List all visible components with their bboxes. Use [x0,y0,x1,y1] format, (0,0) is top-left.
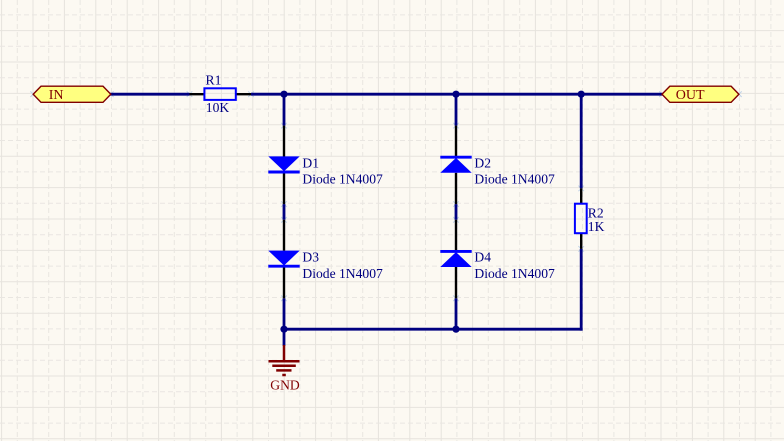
wire: below D3 [283,298,286,330]
svg-text:Diode 1N4007: Diode 1N4007 [302,266,383,281]
junction dot R2 branch top [578,91,585,98]
svg-text:R1: R1 [206,72,222,87]
svg-text:D1: D1 [302,155,319,170]
pin hotspot crosses R2 [578,186,584,252]
svg-text:GND: GND [270,378,300,393]
pin hotspot crosses branch2 diodes [453,123,459,301]
port OUT hotspot crosses [659,91,742,97]
svg-text:Diode 1N4007: Diode 1N4007 [474,266,555,281]
port IN [33,86,111,103]
wire: branch2 top vertical [455,94,458,125]
wire: R1 right pin to OUT port [251,93,663,96]
port OUT [662,86,739,103]
wire: bottom bus [283,328,583,331]
junction dot branch2 top [452,91,459,98]
junction dot bottom branch1 [280,326,287,333]
svg-text:1K: 1K [588,219,605,234]
port IN hotspot crosses [30,91,113,97]
svg-text:IN: IN [49,88,64,103]
diode D2 [440,126,471,205]
wire: below D4 [455,298,458,330]
svg-text:OUT: OUT [676,88,705,103]
resistor R1 [190,88,252,100]
svg-text:Diode 1N4007: Diode 1N4007 [474,172,555,187]
wire: R2 branch top vertical [580,94,583,188]
wire: branch1 top vertical [283,94,286,125]
pin hotspot crosses R1 [187,91,254,97]
ground GND [269,345,300,375]
diode D4 [440,220,471,298]
svg-text:Diode 1N4007: Diode 1N4007 [302,172,383,187]
diode D1 [268,126,299,205]
svg-text:D3: D3 [302,250,319,265]
wire: between D2 and D4 [455,204,458,220]
diode D3 [268,220,299,298]
wire: between D1 and D3 [283,204,286,220]
svg-text:D4: D4 [474,250,491,265]
svg-text:D2: D2 [474,155,491,170]
junction dot bottom branch2 [452,326,459,333]
wire: R2 branch bottom vertical [580,249,583,331]
wire: IN port to R1 left pin [110,93,190,96]
junction dot at R1 output / branch1 [280,91,287,98]
resistor R2 [575,188,587,249]
svg-text:10K: 10K [206,100,230,115]
wire: GND stub [283,329,286,346]
pin hotspot crosses branch1 diodes [281,123,287,301]
